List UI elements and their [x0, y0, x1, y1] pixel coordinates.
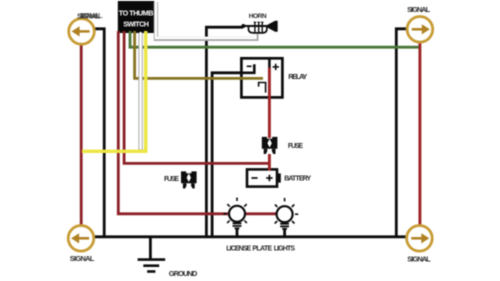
svg-text:SWITCH: SWITCH [123, 20, 149, 29]
svg-text:RELAY: RELAY [288, 72, 307, 81]
svg-text:SIGNAL: SIGNAL [80, 11, 103, 20]
svg-text:PLATE: PLATE [252, 246, 272, 253]
svg-text:SIGNAL: SIGNAL [70, 254, 95, 263]
svg-text:FUSE: FUSE [164, 176, 179, 183]
svg-text:BATTERY: BATTERY [284, 176, 311, 183]
svg-text:FUSE: FUSE [288, 143, 304, 150]
svg-text:LICENSE: LICENSE [226, 246, 251, 253]
svg-text:GROUND: GROUND [169, 269, 198, 278]
svg-text:HORN: HORN [249, 13, 267, 20]
svg-text:TO THUMB: TO THUMB [119, 8, 154, 17]
svg-text:SIGNAL: SIGNAL [407, 5, 430, 14]
svg-text:LIGHTS: LIGHTS [274, 246, 296, 253]
svg-text:SIGNAL: SIGNAL [407, 254, 431, 263]
